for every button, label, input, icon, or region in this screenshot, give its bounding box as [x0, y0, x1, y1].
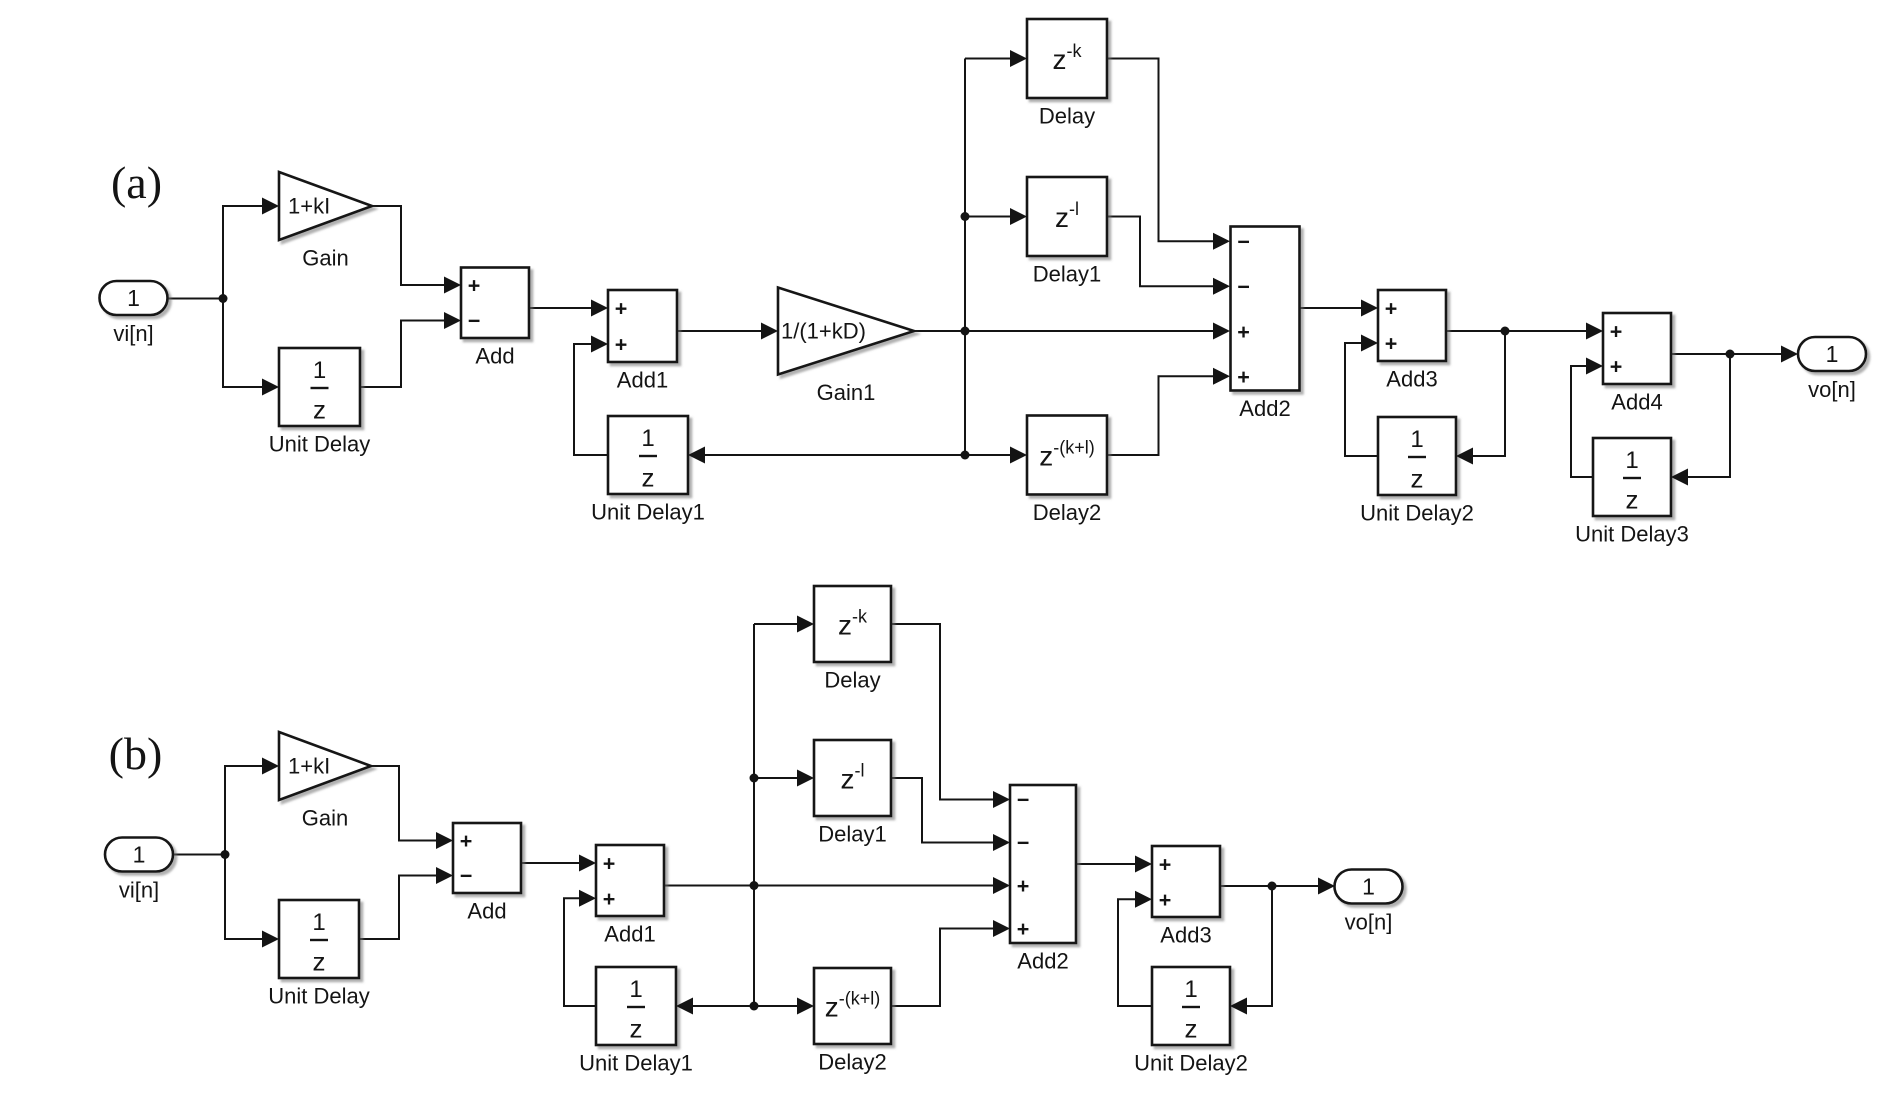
- svg-text:Gain: Gain: [302, 246, 348, 271]
- svg-text:+: +: [1610, 355, 1623, 379]
- svg-text:Delay1: Delay1: [818, 822, 886, 847]
- svg-text:Unit Delay1: Unit Delay1: [591, 500, 705, 525]
- svg-text:Unit Delay1: Unit Delay1: [579, 1051, 693, 1076]
- svg-text:z: z: [1626, 485, 1639, 515]
- svg-text:1: 1: [1410, 426, 1423, 453]
- svg-text:Gain1: Gain1: [817, 380, 876, 405]
- svg-text:Delay: Delay: [824, 668, 880, 693]
- svg-text:z: z: [1411, 464, 1424, 494]
- svg-text:+: +: [1159, 852, 1172, 876]
- svg-text:1: 1: [1362, 874, 1375, 900]
- svg-text:Add4: Add4: [1611, 390, 1662, 415]
- svg-text:−: −: [468, 309, 481, 333]
- svg-text:Add3: Add3: [1386, 367, 1437, 392]
- svg-text:z: z: [642, 463, 655, 493]
- svg-text:1: 1: [1625, 447, 1638, 474]
- svg-text:vi[n]: vi[n]: [113, 321, 153, 346]
- svg-text:z: z: [313, 395, 326, 425]
- svg-text:Add1: Add1: [617, 368, 668, 393]
- svg-text:(a): (a): [111, 157, 162, 208]
- svg-text:−: −: [460, 864, 473, 888]
- svg-text:1/(1+kD): 1/(1+kD): [781, 319, 866, 344]
- svg-text:vi[n]: vi[n]: [119, 878, 159, 903]
- svg-text:1: 1: [1826, 341, 1839, 367]
- svg-text:+: +: [615, 333, 628, 357]
- svg-text:vo[n]: vo[n]: [1345, 910, 1393, 935]
- svg-text:Add1: Add1: [604, 922, 655, 947]
- svg-text:+: +: [603, 887, 616, 911]
- svg-text:vo[n]: vo[n]: [1808, 377, 1856, 402]
- svg-text:1+kI: 1+kI: [288, 754, 330, 779]
- svg-text:+: +: [1237, 365, 1250, 389]
- svg-text:−: −: [1017, 831, 1030, 855]
- svg-text:+: +: [1385, 297, 1398, 321]
- svg-text:Delay2: Delay2: [1033, 500, 1101, 525]
- svg-text:Add: Add: [475, 344, 514, 369]
- svg-text:1: 1: [127, 285, 140, 311]
- svg-text:1: 1: [133, 842, 146, 868]
- svg-text:Unit Delay2: Unit Delay2: [1360, 501, 1474, 526]
- svg-text:+: +: [468, 274, 481, 298]
- svg-text:Add2: Add2: [1239, 396, 1290, 421]
- svg-text:Unit Delay: Unit Delay: [268, 984, 369, 1009]
- svg-text:1: 1: [641, 425, 654, 452]
- svg-text:+: +: [1610, 320, 1623, 344]
- svg-text:Add: Add: [467, 899, 506, 924]
- svg-text:+: +: [1017, 874, 1030, 898]
- svg-text:1: 1: [1184, 976, 1197, 1003]
- svg-text:Unit Delay3: Unit Delay3: [1575, 522, 1689, 547]
- svg-text:Delay: Delay: [1039, 104, 1095, 129]
- svg-text:Add3: Add3: [1160, 923, 1211, 948]
- svg-text:−: −: [1237, 230, 1250, 254]
- svg-text:Unit Delay2: Unit Delay2: [1134, 1051, 1248, 1076]
- svg-text:+: +: [460, 829, 473, 853]
- svg-text:Unit Delay: Unit Delay: [269, 432, 370, 457]
- svg-text:z: z: [313, 947, 326, 977]
- svg-text:1: 1: [313, 357, 326, 384]
- svg-text:+: +: [603, 851, 616, 875]
- svg-text:1+kI: 1+kI: [288, 194, 330, 219]
- svg-text:+: +: [615, 297, 628, 321]
- svg-text:Delay2: Delay2: [818, 1050, 886, 1075]
- svg-text:+: +: [1385, 332, 1398, 356]
- svg-text:z: z: [1185, 1014, 1198, 1044]
- svg-text:(b): (b): [109, 728, 163, 779]
- svg-text:+: +: [1159, 888, 1172, 912]
- svg-text:Add2: Add2: [1017, 949, 1068, 974]
- svg-text:1: 1: [629, 976, 642, 1003]
- svg-text:Gain: Gain: [302, 806, 348, 831]
- svg-text:−: −: [1237, 275, 1250, 299]
- svg-text:+: +: [1017, 917, 1030, 941]
- svg-text:Delay1: Delay1: [1033, 262, 1101, 287]
- svg-text:−: −: [1017, 788, 1030, 812]
- svg-text:+: +: [1237, 320, 1250, 344]
- svg-text:z: z: [630, 1014, 643, 1044]
- svg-text:1: 1: [312, 909, 325, 936]
